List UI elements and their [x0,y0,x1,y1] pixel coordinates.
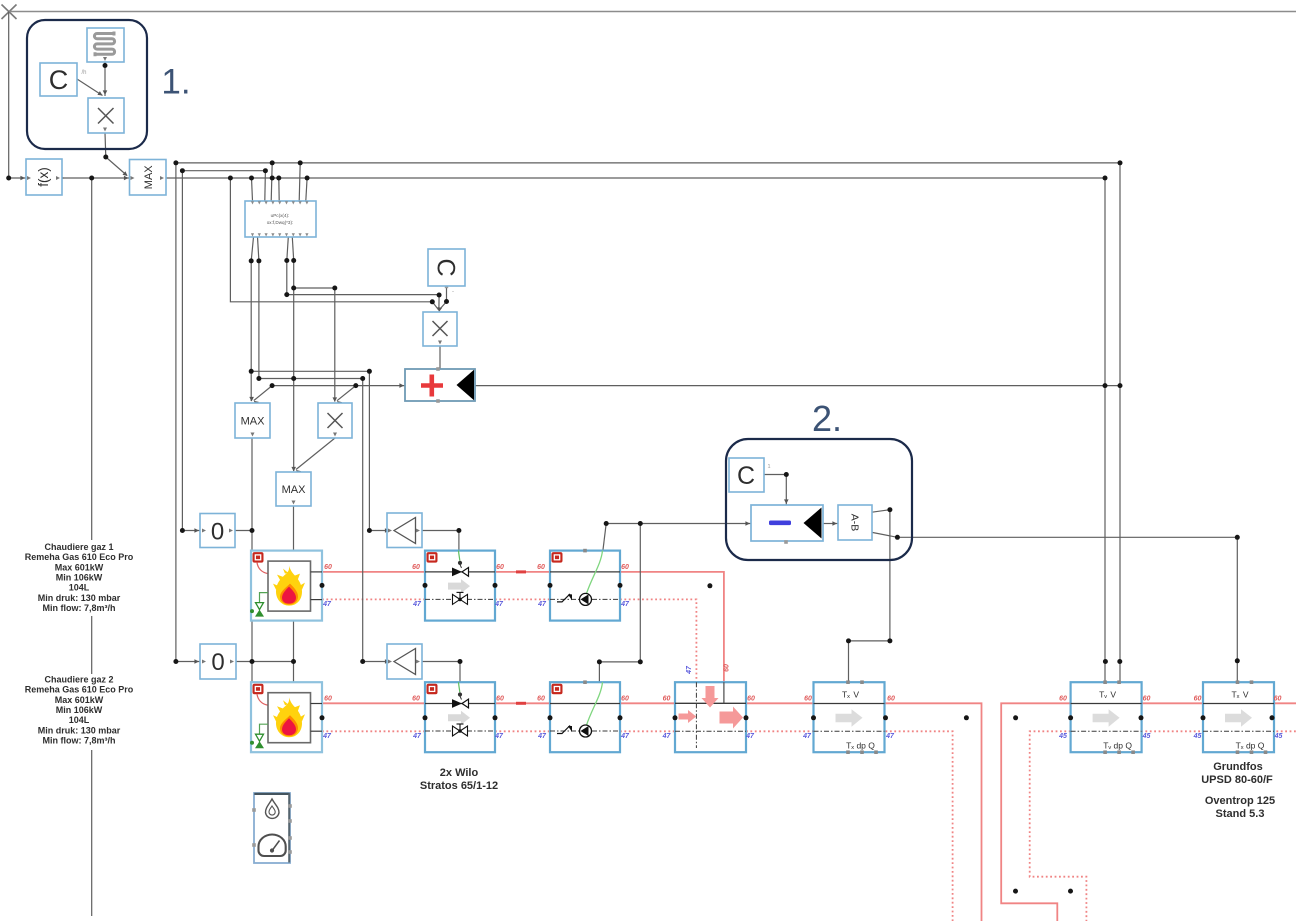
svg-text:0: 0 [211,519,224,546]
group box 1 [27,20,147,149]
svg-text:60: 60 [496,564,504,571]
wire: top boundary line [9,11,1296,13]
svg-text:Tₓ V: Tₓ V [842,690,859,700]
pipe: return row2 valve2-pump2 [495,730,550,732]
svg-text:60: 60 [1194,696,1202,703]
svg-text:60: 60 [1143,696,1151,703]
wire: branch to multiplier-B [294,288,337,402]
wire: long vertical from f(x) output junction [91,178,93,916]
svg-text:0: 0 [211,649,224,676]
wire: f(x) to MAX [60,176,130,181]
svg-text:uPc(x(4):: uPc(x(4): [271,213,290,218]
label: port numbers 47/45 return [322,601,1282,740]
svg-text:60: 60 [723,664,730,672]
wire: equation out pin c to multiplier2 [287,237,439,310]
svg-text:45: 45 [1058,733,1067,740]
wire: equation out pin b [258,237,259,379]
svg-text:MAX: MAX [143,165,155,190]
block: sensor 2 T,dp,Q [1071,680,1142,754]
wire: equation out pin d to MAX-C [291,237,296,472]
block: schedule U1 [87,28,124,62]
block: sensor 1 T,dp,Q [814,680,885,754]
wire: schedule to multiplier [103,62,108,96]
wire: MAX-C to boiler1 top [293,506,295,551]
block: multiplier X1 [88,98,124,133]
svg-text:C: C [49,65,69,95]
block: tee / diverter [675,682,746,752]
pipe: supply row2 sensor2-sensor3 [1141,702,1203,704]
wire: line A - upper bus to far right, down to sensor2 [176,163,1120,682]
label: 2x Wilo Stratos [420,767,498,792]
pipe: return row2 sensor2-sensor3 [1141,730,1203,732]
svg-text:Min druk: 130 mbar: Min druk: 130 mbar [38,725,121,735]
svg-text:60: 60 [324,564,332,571]
svg-text:60: 60 [663,696,671,703]
block: sensor 3 T,dp,Q [1203,680,1274,754]
pipe: return row1 boiler1-valve1 [322,598,425,600]
pipe: supply row2 tee-sensor1 [746,702,814,704]
wire: multiplier1 down and diagonal to MAX1 [105,133,128,176]
wire: into f(x) [9,176,26,181]
pipe: return row2 sensor3-edge [1272,730,1296,732]
wire: theta2 output to boiler2 links [236,661,294,663]
pipe: return row2 boiler2-valve2 [322,730,425,732]
svg-text:Stand 5.3: Stand 5.3 [1216,808,1265,820]
svg-text:47: 47 [745,733,755,740]
svg-text:47: 47 [620,733,630,740]
svg-text:Min flow: 7,8m³/h: Min flow: 7,8m³/h [43,735,116,745]
pipe: return row2 sensor1 to drop [886,731,953,921]
block: triangle buffer 2 [387,644,422,679]
wire: boiler1 bottom pass-through links [252,621,294,683]
svg-text:Min flow: 7,8m³/h: Min flow: 7,8m³/h [43,603,116,613]
svg-text:47: 47 [322,601,332,608]
block: subtract with feedback arrow [751,505,823,544]
svg-text:f(x): f(x) [36,167,51,187]
wire: constant C2 into multiplier2 [438,285,449,312]
svg-text:Stratos 65/1-12: Stratos 65/1-12 [420,780,498,792]
svg-text:A-B: A-B [848,514,860,532]
wire: constant C to multiplier diagonal [77,79,103,96]
pipe: supply row2 boiler2-valve2 [322,702,425,704]
svg-text:60: 60 [747,696,755,703]
block: theta2 [200,644,236,679]
pipe: supply row2 valve2-pump2 [495,702,550,704]
svg-text:60: 60 [496,696,504,703]
svg-text:1.: 1. [161,63,190,102]
svg-text:47: 47 [686,665,693,675]
svg-text:47: 47 [662,733,672,740]
wire: constant C3 to subtract block [764,475,789,506]
svg-text:47: 47 [412,601,422,608]
pipe: return row1 pump1 to tee drop [620,599,696,731]
svg-text:1: 1 [767,464,770,470]
block: MAX-C [276,472,311,506]
block: A-B [838,505,872,540]
svg-text:47: 47 [802,733,812,740]
pipe: supply row1 valve1-pump1 [495,571,550,573]
wire: bus3 to adder input [272,383,405,388]
pipe: supply row2 marker dash [516,702,526,705]
block: check-valve unit row1 [425,551,495,621]
svg-text:2x Wilo: 2x Wilo [440,767,479,779]
wire: bus3 diagonal to multiplier-B [337,386,356,406]
block: equation multi-pin [245,201,316,237]
pipe: supply row2 sensor1 to drop [886,703,982,921]
block: MAX1 [130,160,167,196]
svg-text:/h: /h [81,70,86,76]
block: boiler 1 (Chaudiere gaz 1) [250,551,322,621]
svg-text:47: 47 [322,733,332,740]
block: MAX-A [235,403,270,438]
svg-text:Min 106kW: Min 106kW [56,705,103,715]
wire: multiplier2 to adder [439,346,441,369]
svg-text:Min druk: 130 mbar: Min druk: 130 mbar [38,593,121,603]
block: constant C3 [729,458,764,492]
svg-text:60: 60 [887,696,895,703]
svg-text:2.: 2. [812,398,842,439]
pipe: supply row1 pump1 to tee drop [620,572,724,703]
pipe: return row2 riser to sensor2 [1030,731,1087,921]
block: constant C1 [40,63,77,96]
block: pump 2 (Wilo Stratos) [550,680,620,752]
svg-text:Grundfos: Grundfos [1213,761,1263,773]
label: port numbers 60 supply [324,564,1281,703]
svg-text:Max 601kW: Max 601kW [55,695,104,705]
wire: A-B upper output to sensor1 top [849,510,890,683]
pipe: supply row2 sensor3-edge [1272,702,1296,704]
svg-text:MAX: MAX [282,484,307,496]
block: theta1 [200,514,235,548]
svg-text:45: 45 [1274,733,1283,740]
svg-text:Tᵥ dp Q: Tᵥ dp Q [1103,741,1132,751]
svg-text:60: 60 [621,696,629,703]
svg-text:47: 47 [494,733,504,740]
label: Grundfos [1201,761,1273,786]
svg-text:Tₓ V: Tₓ V [1231,690,1248,700]
block: check-valve unit row2 [425,682,495,752]
group box 2 [726,439,912,560]
wire: bus2 to triangle2 [259,379,390,664]
svg-text:60: 60 [412,564,420,571]
svg-text:45: 45 [1193,733,1202,740]
svg-text:-: - [452,289,454,295]
wire: bus1 to triangle1 [251,371,389,533]
svg-text:60: 60 [537,696,545,703]
label: Oventrop [1205,795,1275,820]
svg-text:Chaudiere gaz 1: Chaudiere gaz 1 [44,542,113,552]
wire: subtract to A-B [823,521,838,526]
svg-text:Max 601kW: Max 601kW [55,562,104,572]
block: pump 1 (Wilo Stratos) [550,549,620,621]
wire: MAX-A + theta1 to boiler1 control [235,438,252,551]
block: multiplier-B [318,403,352,438]
svg-text:60: 60 [324,696,332,703]
wire: line C - MAX1 output to far right, down to sensor2 [166,178,1105,682]
svg-text:47: 47 [620,601,630,608]
block: boiler 2 (Chaudiere gaz 2) [250,682,322,752]
svg-text:104L: 104L [69,715,90,725]
svg-text:47: 47 [412,733,422,740]
svg-text:60: 60 [1059,696,1067,703]
svg-text:MAX: MAX [241,416,266,428]
svg-text:ox:f,Dwq(*3):: ox:f,Dwq(*3): [267,220,294,225]
svg-text:60: 60 [412,696,420,703]
wire: triangle2 to valve2 top [415,659,460,682]
wire: adder output to right verticals [475,385,1120,387]
block: adder with feedback arrow [405,367,475,403]
svg-text:45: 45 [1142,733,1151,740]
pipe: return row1 valve1-pump1 [495,598,550,600]
svg-text:C: C [737,462,755,490]
wire: equation out pin a to MAX-A [249,237,254,402]
svg-text:Remeha Gas 610 Eco Pro: Remeha Gas 610 Eco Pro [25,685,134,695]
pipe: supply row2 pump2-tee [620,702,675,704]
label: Chaudiere gaz 2 spec [17,674,142,750]
svg-text:47: 47 [537,733,547,740]
wire: MAX1-line branch down to multiplier2 [230,178,438,310]
wire: equation top pin stubs [252,163,308,201]
pipe: return row2 pump2-tee [620,730,675,732]
svg-text:104L: 104L [69,583,90,593]
label: Chaudiere gaz 1 spec [17,540,142,616]
node: origin cross mark [2,5,17,20]
wire: pump speed bus [599,521,751,682]
pipe: supply row1 marker dash [516,570,526,573]
wire: bus3 diagonal to MAX-A [254,386,272,406]
wire: multiplier-B to MAX-C diagonal [296,438,335,475]
wire: triangle1 to valve1 top [415,528,459,550]
svg-text:Min 106kW: Min 106kW [56,572,103,582]
svg-text:Tₓ dp Q: Tₓ dp Q [846,741,875,751]
wire: line B - short middle bus [182,170,265,172]
block: multiplier X2 [423,312,457,346]
svg-text:60: 60 [1274,696,1282,703]
svg-text:UPSD 80-60/F: UPSD 80-60/F [1201,774,1273,786]
block: triangle buffer 1 [387,513,422,548]
pipe: return row2 tee-sensor1 [746,730,814,732]
svg-text:C: C [432,258,460,276]
svg-text:47: 47 [537,601,547,608]
svg-text:Tₓ dp Q: Tₓ dp Q [1236,741,1265,751]
svg-text:60: 60 [804,696,812,703]
svg-text:Chaudiere gaz 2: Chaudiere gaz 2 [44,675,113,685]
wire: bus A drop to theta block2 [176,163,200,664]
svg-text:Remeha Gas 610 Eco Pro: Remeha Gas 610 Eco Pro [25,552,134,562]
svg-text:47: 47 [494,601,504,608]
block: meter unit (gas/pressure) [252,793,292,863]
block: f(x) [26,159,62,195]
svg-text:47: 47 [885,733,895,740]
pipe: supply row2 riser to sensor2 [1001,703,1070,921]
pipe: supply row1 boiler1-valve1 [322,571,425,573]
svg-text:Tᵥ V: Tᵥ V [1099,690,1116,700]
svg-text:60: 60 [621,564,629,571]
svg-text:60: 60 [537,564,545,571]
wire: bus B drop to theta block1 [182,171,200,533]
wire: A-B lower output to sensor3 top [872,532,1237,682]
block: constant C2 [428,249,465,286]
wire: origin drop to f(x) [8,12,10,179]
svg-text:Oventrop 125: Oventrop 125 [1205,795,1275,807]
